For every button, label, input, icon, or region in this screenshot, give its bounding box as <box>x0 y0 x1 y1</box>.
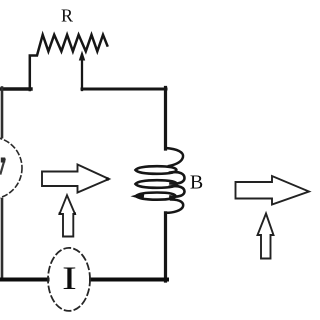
wire top-right segment <box>82 88 166 91</box>
inductor B turn 2 <box>136 180 177 188</box>
wire left vertical lower <box>1 199 4 278</box>
arrow right up (hollow) <box>258 214 274 259</box>
svg-text:I: I <box>62 260 77 296</box>
arrow middle right (hollow) <box>42 165 109 193</box>
inductor B exit curve <box>166 200 183 213</box>
wire left vertical upper <box>1 88 4 138</box>
wire top-left segment <box>0 87 31 90</box>
wire right vertical lower <box>164 213 167 281</box>
svg-text:R: R <box>61 6 73 26</box>
arrow right (hollow) <box>236 176 310 205</box>
wire bottom-right segment <box>91 278 167 282</box>
wire right vertical upper <box>164 88 167 150</box>
voltmeter V (dashed, clipped at left edge) <box>0 137 22 199</box>
inductor B right bulge 1 <box>170 172 185 184</box>
resistor R lead and zigzag <box>30 35 108 90</box>
inductor B turn 1 <box>136 166 177 174</box>
wire bottom-left segment <box>0 278 48 282</box>
inductor B left arrowhead on turn 3 <box>131 192 145 200</box>
svg-text:B: B <box>190 172 203 194</box>
inductor B right bulge 2 <box>170 186 185 197</box>
arrow middle up (hollow) <box>60 195 76 236</box>
arrow middle up corner dots <box>59 212 62 215</box>
inductor B entry curve <box>166 148 183 166</box>
voltmeter letter V <box>1 160 5 174</box>
ammeter I (dashed ellipse) <box>48 248 90 311</box>
inductor B turn 3 <box>136 193 176 200</box>
wiper arrow of rheostat <box>81 58 83 90</box>
arrow middle right tip dot <box>106 177 110 181</box>
